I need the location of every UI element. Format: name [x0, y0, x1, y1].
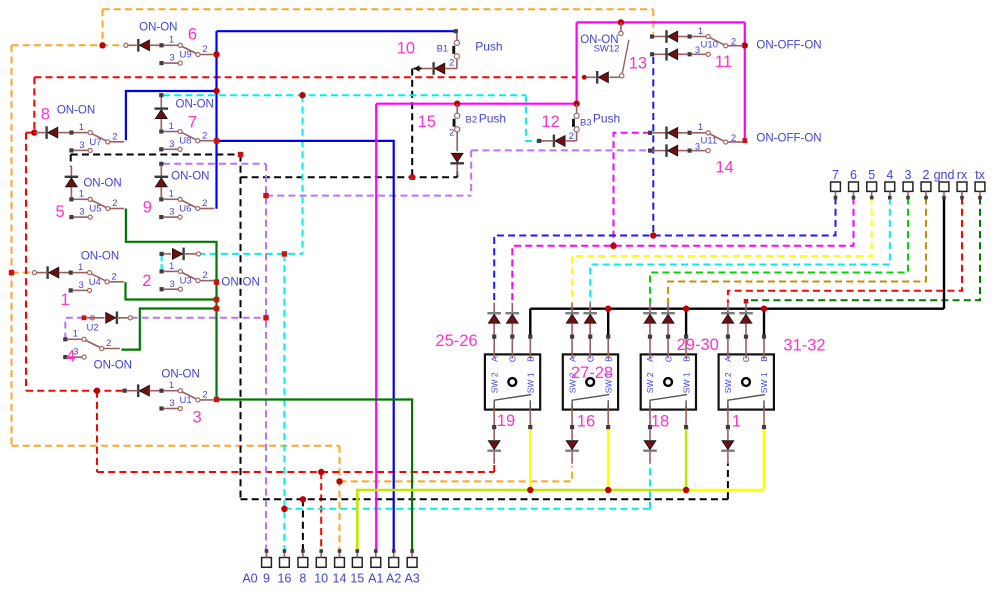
- wire green U2 branch: [121, 309, 216, 350]
- svg-text:13: 13: [629, 54, 647, 72]
- label pink 8: [41, 106, 50, 124]
- terminal A2 (bottom strip): [386, 549, 401, 585]
- wire magenta horizontal y104: [376, 103, 576, 105]
- wire violet U2 row left: [65, 318, 84, 338]
- wire gnd drop box1 B: [529, 309, 531, 336]
- svg-text:A3: A3: [404, 572, 419, 586]
- junction black at terminal 8 drop: [300, 496, 306, 502]
- svg-text:4: 4: [66, 347, 75, 365]
- label pink 9: [143, 198, 152, 216]
- junction red at U7: [31, 129, 37, 135]
- svg-text:tx: tx: [975, 168, 985, 182]
- svg-text:SW 1: SW 1: [759, 372, 769, 393]
- junction cyan at y254: [282, 251, 287, 256]
- wire blue-dash branch to U10 pin3: [652, 57, 654, 236]
- terminal 15 (bottom strip): [350, 549, 364, 585]
- svg-text:ON-ON: ON-ON: [176, 99, 214, 111]
- label pink 18: [651, 413, 669, 431]
- label ON-ON U9: [139, 22, 177, 34]
- label pin2 B1: [449, 58, 454, 69]
- label ON-ON U1: [161, 369, 199, 381]
- svg-text:3: 3: [169, 53, 174, 64]
- svg-text:2: 2: [202, 198, 207, 209]
- junction green U1: [214, 397, 219, 402]
- junction magenta SW12: [618, 19, 624, 25]
- diode at SW12: [582, 71, 609, 84]
- pushbutton B3: [572, 104, 579, 141]
- wire black bottom horizontal: [241, 498, 728, 500]
- diode at U7: [34, 126, 69, 139]
- wire blue top horizontal to B1: [217, 30, 456, 32]
- label pink 15: [418, 113, 436, 131]
- svg-text:1: 1: [698, 26, 703, 37]
- svg-text:6: 6: [188, 26, 197, 44]
- svg-text:SW 2: SW 2: [489, 372, 499, 393]
- svg-text:rx: rx: [957, 168, 968, 182]
- svg-text:SW 1: SW 1: [526, 372, 536, 393]
- svg-text:1: 1: [169, 189, 174, 200]
- wire violet riser x471: [470, 150, 472, 195]
- wire cyan drop x302: [302, 95, 304, 254]
- svg-text:2: 2: [106, 338, 111, 349]
- junction red at U1: [94, 388, 100, 394]
- svg-text:9: 9: [143, 198, 152, 216]
- svg-text:ON-ON: ON-ON: [161, 369, 199, 381]
- diode at B1: [422, 62, 457, 75]
- terminal 14 (bottom strip): [333, 549, 347, 585]
- wire black riser to box4 SW2 diode: [727, 464, 729, 500]
- svg-text:A0: A0: [242, 572, 257, 586]
- svg-text:B3: B3: [580, 118, 592, 129]
- wire violet horizontal y164: [163, 163, 266, 165]
- wire magenta top horizontal: [577, 21, 745, 23]
- wire green to A3: [217, 400, 413, 552]
- junction orange at riser: [99, 42, 105, 48]
- svg-text:1: 1: [73, 329, 78, 340]
- wire magenta right vertical: [744, 22, 746, 140]
- svg-text:U8: U8: [179, 136, 191, 147]
- diode above U5: [65, 167, 79, 198]
- label pink 6: [188, 26, 197, 44]
- svg-text:B: B: [526, 356, 536, 362]
- svg-text:U1: U1: [180, 395, 192, 406]
- svg-text:2: 2: [202, 270, 207, 281]
- svg-text:A: A: [645, 356, 655, 362]
- label B2: [465, 114, 477, 125]
- label ON-ON U8: [176, 99, 214, 111]
- svg-text:ON-ON: ON-ON: [83, 178, 121, 190]
- wire magenta vertical to A1: [375, 104, 377, 551]
- svg-text:3: 3: [905, 168, 912, 182]
- wire black horizontal y154: [71, 154, 241, 156]
- switch U1: [159, 380, 214, 411]
- junction yellow box2: [605, 487, 611, 493]
- wire black vertical x240: [240, 155, 242, 500]
- svg-text:1: 1: [61, 291, 70, 309]
- wire black stub to B2 diode: [456, 172, 458, 178]
- junction gnd box4: [761, 306, 767, 312]
- wire gnd drop box2 B: [607, 309, 609, 336]
- wire violet U2 row right: [131, 317, 267, 319]
- switch U7: [69, 122, 124, 153]
- svg-text:ON-ON: ON-ON: [94, 360, 132, 372]
- label ON-OFF-ON U10: [756, 40, 821, 52]
- svg-text:2: 2: [569, 131, 574, 142]
- label pin2 B2: [449, 128, 454, 139]
- DPDT box SW1/SW2 #3: [641, 303, 696, 464]
- svg-text:C: C: [741, 356, 751, 362]
- terminal 8 (bottom strip): [298, 549, 308, 585]
- svg-text:A2: A2: [386, 572, 401, 586]
- svg-text:25-26: 25-26: [435, 332, 477, 350]
- svg-text:3: 3: [193, 409, 202, 427]
- svg-text:ON-ON: ON-ON: [139, 22, 177, 34]
- wire blue branch to A2: [217, 141, 394, 551]
- svg-text:C: C: [585, 356, 595, 362]
- junction magenta U10 pin2: [742, 42, 748, 48]
- diode at U3: [160, 248, 201, 261]
- svg-text:U3: U3: [180, 276, 192, 287]
- svg-text:B: B: [759, 356, 769, 362]
- label pink 5: [56, 203, 65, 221]
- terminal blue at B1: [454, 29, 458, 33]
- wire cyan corner to B3: [526, 95, 538, 141]
- svg-text:7: 7: [832, 168, 839, 182]
- wire red bottom horizontal: [97, 471, 494, 473]
- svg-text:B2: B2: [465, 114, 477, 125]
- wire red drop x97: [96, 391, 98, 472]
- svg-text:ON-OFF-ON: ON-OFF-ON: [756, 40, 821, 52]
- DPDT box SW1/SW2 #1: [485, 303, 540, 464]
- wire violet vertical to terminal 9: [265, 164, 267, 551]
- wire violet horizontal to U11 pin3: [471, 149, 648, 151]
- wire red-dash from terminal rx: [728, 198, 962, 303]
- label ON-ON U3: [221, 277, 259, 289]
- diode above U6: [155, 162, 169, 197]
- wire red jog: [26, 132, 34, 134]
- wire darkyellow-dash from terminal 2: [668, 198, 926, 303]
- terminal 6 (top strip): [849, 168, 859, 199]
- svg-text:A1: A1: [368, 572, 383, 586]
- label pink 4: [66, 347, 75, 365]
- terminal tx wire end at box4 pin C: [744, 299, 749, 304]
- junction green U3: [214, 279, 219, 284]
- label pink 1: [61, 291, 70, 309]
- wire yellow riser box2 SW1: [607, 428, 610, 490]
- label SW12: [594, 44, 620, 55]
- wire red drop to terminal 10: [320, 472, 322, 551]
- wire red riser to box1 SW2 diode: [493, 464, 495, 473]
- junction orange at box2 branch: [336, 478, 342, 484]
- svg-text:14: 14: [333, 572, 347, 586]
- switch U3: [160, 261, 215, 292]
- junction orange at U4 branch: [9, 270, 14, 275]
- label pink 3: [193, 409, 202, 427]
- junction blue-dash: [650, 232, 656, 238]
- svg-text:SW 1: SW 1: [681, 372, 691, 393]
- wire blue-dash from terminal 7: [494, 198, 835, 303]
- switch U6: [159, 189, 214, 220]
- wire cyan riser to box3 SW2 diode: [649, 466, 651, 509]
- label pink 7: [188, 113, 197, 131]
- svg-text:3: 3: [169, 398, 174, 409]
- wire darkgreen-dash from terminal tx: [746, 198, 980, 303]
- svg-text:1: 1: [169, 380, 174, 391]
- terminal 10 (bottom strip): [314, 549, 328, 585]
- svg-text:U10: U10: [701, 39, 718, 50]
- svg-text:5: 5: [868, 168, 875, 182]
- svg-text:10: 10: [397, 39, 415, 57]
- svg-text:A: A: [489, 356, 499, 362]
- svg-text:3: 3: [695, 141, 700, 152]
- junction cyan at bottom: [281, 506, 287, 512]
- label pink 10: [397, 39, 415, 57]
- svg-text:2: 2: [202, 130, 207, 141]
- svg-text:15: 15: [418, 113, 436, 131]
- svg-text:1: 1: [78, 262, 83, 273]
- label pink 11: [715, 53, 732, 71]
- terminal 4 (top strip): [885, 168, 895, 199]
- svg-text:2: 2: [731, 133, 736, 144]
- svg-text:18: 18: [651, 413, 669, 431]
- label ON-ON SW12: [580, 34, 618, 46]
- svg-text:U4: U4: [89, 277, 101, 288]
- svg-text:8: 8: [41, 106, 50, 124]
- svg-text:SW 2: SW 2: [645, 372, 655, 393]
- wire yellow-dash from terminal 5: [572, 198, 872, 303]
- switch U4: [69, 262, 124, 293]
- label ON-ON U7: [57, 105, 95, 117]
- svg-text:SW12: SW12: [594, 44, 620, 55]
- svg-text:Push: Push: [593, 111, 620, 125]
- svg-text:C: C: [508, 356, 518, 362]
- svg-text:ON-ON: ON-ON: [221, 277, 259, 289]
- svg-text:U5: U5: [89, 204, 101, 215]
- svg-text:19: 19: [497, 412, 515, 430]
- terminal gnd (top strip): [934, 168, 955, 199]
- wire black riser to B1 diode: [411, 69, 413, 178]
- svg-text:3: 3: [169, 279, 174, 290]
- junction magenta B3: [573, 101, 579, 107]
- wire black branch y177: [241, 176, 458, 178]
- label pink 25-26: [435, 332, 477, 350]
- svg-text:2: 2: [112, 271, 117, 282]
- wire red horizontal to U1: [26, 390, 125, 392]
- svg-text:A: A: [567, 356, 577, 362]
- label pink 14: [715, 159, 733, 177]
- switch U10: [650, 26, 743, 61]
- svg-text:C: C: [663, 356, 673, 362]
- junction magenta B2: [454, 101, 460, 107]
- svg-text:1: 1: [169, 35, 174, 46]
- wire orange top-left horizontal: [12, 44, 126, 46]
- svg-text:Push: Push: [479, 111, 506, 125]
- wire gnd drop box4 B: [763, 309, 765, 336]
- wire orange riser to top: [102, 9, 104, 45]
- svg-text:9: 9: [263, 572, 270, 586]
- svg-text:U7: U7: [89, 137, 101, 148]
- switch SW12: [609, 22, 629, 78]
- terminal 2 (top strip): [921, 168, 931, 199]
- label pink 16: [577, 413, 595, 431]
- label pink 27-28: [571, 364, 613, 382]
- junction blue U7 branch: [213, 88, 219, 94]
- svg-text:1: 1: [79, 122, 84, 133]
- terminal 3 (top strip): [903, 168, 913, 199]
- label pink 1: [732, 413, 741, 431]
- switch U11: [648, 122, 743, 157]
- wire magenta-dash from terminal 6: [512, 198, 853, 303]
- label ON-ON U4: [81, 251, 119, 263]
- wire violet branch y195: [266, 195, 471, 197]
- terminal tx (top strip): [975, 168, 986, 199]
- wire cyan bottom horizontal: [284, 508, 650, 510]
- wire cyan horizontal y95: [163, 94, 526, 96]
- label Push B1: [475, 40, 502, 54]
- wire yellow riser box4 SW1: [763, 428, 766, 490]
- label Push B2: [479, 111, 506, 125]
- svg-text:15: 15: [350, 572, 364, 586]
- wire black drop to terminal 8: [302, 499, 304, 551]
- wire orange top horizontal: [103, 8, 654, 10]
- svg-text:B: B: [603, 356, 613, 362]
- terminal rx (top strip): [957, 168, 968, 199]
- label ON-ON U2: [94, 360, 132, 372]
- junction black at x240: [238, 152, 243, 157]
- wire black drop to U5 diode: [70, 155, 72, 167]
- junction violet y318: [263, 315, 268, 320]
- wire blue branch to U7: [126, 91, 217, 140]
- label ON-ON U6: [171, 171, 209, 183]
- svg-text:2: 2: [449, 128, 454, 139]
- wire chartreuse from terminal 15: [357, 490, 686, 551]
- svg-text:1: 1: [698, 122, 703, 133]
- svg-text:gnd: gnd: [934, 168, 955, 182]
- wire red horizontal y77: [34, 76, 576, 78]
- wire green U4 branch: [126, 282, 217, 299]
- svg-text:29-30: 29-30: [677, 336, 719, 354]
- svg-text:3: 3: [695, 45, 700, 56]
- diode at U4: [32, 266, 68, 279]
- svg-text:31-32: 31-32: [783, 337, 825, 355]
- DPDT box SW1/SW2 #4: [719, 303, 774, 464]
- terminal A1 (bottom strip): [368, 549, 383, 585]
- junction violet y195: [263, 193, 268, 198]
- svg-text:B1: B1: [437, 43, 449, 54]
- wire blue vertical main: [215, 31, 217, 209]
- svg-text:B: B: [681, 356, 691, 362]
- switch U8: [159, 121, 214, 152]
- wire orange drop to terminal 14: [339, 446, 341, 551]
- terminal magenta U11 pin2: [742, 138, 747, 143]
- svg-text:4: 4: [886, 168, 893, 182]
- diode at U2: [86, 312, 132, 325]
- junction violet at U2 diode: [82, 315, 87, 320]
- svg-text:2: 2: [731, 37, 736, 48]
- svg-text:U6: U6: [179, 204, 191, 215]
- wire gnd vertical: [943, 198, 945, 309]
- wire magenta left vertical: [575, 22, 577, 103]
- svg-text:ON-OFF-ON: ON-OFF-ON: [756, 133, 821, 145]
- wire gnd drop box3 B: [685, 309, 687, 336]
- terminal 5 (top strip): [867, 168, 877, 199]
- svg-text:11: 11: [715, 53, 732, 71]
- label ON-OFF-ON U11: [756, 133, 821, 145]
- svg-text:1: 1: [732, 413, 741, 431]
- switch U5: [69, 189, 124, 220]
- junction yellow box3: [683, 487, 689, 493]
- DPDT box SW1/SW2 #2: [563, 303, 618, 464]
- svg-text:16: 16: [577, 413, 595, 431]
- wire green-dash from terminal 3: [650, 198, 908, 303]
- wire orange vertical left: [11, 45, 13, 446]
- wire orange bottom horizontal: [12, 445, 340, 447]
- svg-text:ON-ON: ON-ON: [81, 251, 119, 263]
- junction magenta-dash: [610, 243, 616, 249]
- label pink 31-32: [783, 337, 825, 355]
- svg-text:U9: U9: [180, 50, 192, 61]
- svg-text:3: 3: [79, 140, 84, 151]
- svg-text:Push: Push: [475, 40, 502, 54]
- wire yellow bus right: [686, 489, 764, 492]
- svg-text:7: 7: [188, 113, 197, 131]
- terminal A3 (bottom strip): [404, 549, 419, 585]
- junction yellow box1: [527, 487, 533, 493]
- label Push B3: [593, 111, 620, 125]
- junction gnd box2: [605, 306, 611, 312]
- label pink 2: [142, 272, 151, 290]
- label B3: [580, 118, 592, 129]
- wire red vertical long: [25, 133, 27, 391]
- pushbutton B2: [453, 104, 460, 151]
- wire chartreuse riser box3 SW1: [685, 428, 688, 490]
- svg-text:3: 3: [79, 280, 84, 291]
- svg-text:10: 10: [314, 572, 328, 586]
- wire cyan drop to terminal 16: [283, 254, 285, 551]
- junction black at B1 riser: [410, 175, 415, 180]
- svg-text:2: 2: [923, 168, 930, 182]
- svg-text:2: 2: [449, 58, 454, 69]
- junction cyan at y95: [299, 92, 305, 98]
- svg-text:3: 3: [79, 207, 84, 218]
- junction blue A2 branch: [214, 138, 219, 143]
- label pink 12: [541, 113, 559, 131]
- wire cyan horizontal y254: [199, 253, 303, 255]
- label pink 19: [497, 412, 515, 430]
- diode below B2: [450, 153, 464, 175]
- svg-text:ON-ON: ON-ON: [171, 171, 209, 183]
- junction gnd box3: [683, 306, 689, 312]
- svg-text:3: 3: [169, 207, 174, 218]
- label pink 13: [629, 54, 647, 72]
- terminal 16 (bottom strip): [277, 549, 291, 585]
- wire green from U5: [126, 209, 217, 400]
- svg-text:2: 2: [142, 272, 151, 290]
- wire orange drop to U10 pin1: [652, 9, 654, 33]
- label pin2 B3: [569, 131, 574, 142]
- wire magenta-dash branch to U11 pin1: [614, 133, 651, 246]
- terminal label A0 (bottom strip): [242, 572, 257, 586]
- junction blue U9: [213, 51, 219, 57]
- svg-text:2: 2: [202, 390, 207, 401]
- svg-text:6: 6: [850, 168, 857, 182]
- svg-text:2: 2: [112, 198, 117, 209]
- diode at U9: [124, 39, 160, 52]
- wire cyan link U3 pin1: [161, 256, 163, 269]
- svg-text:SW 2: SW 2: [723, 372, 733, 393]
- label ON-ON U5: [83, 178, 121, 190]
- diode at U1: [123, 384, 160, 397]
